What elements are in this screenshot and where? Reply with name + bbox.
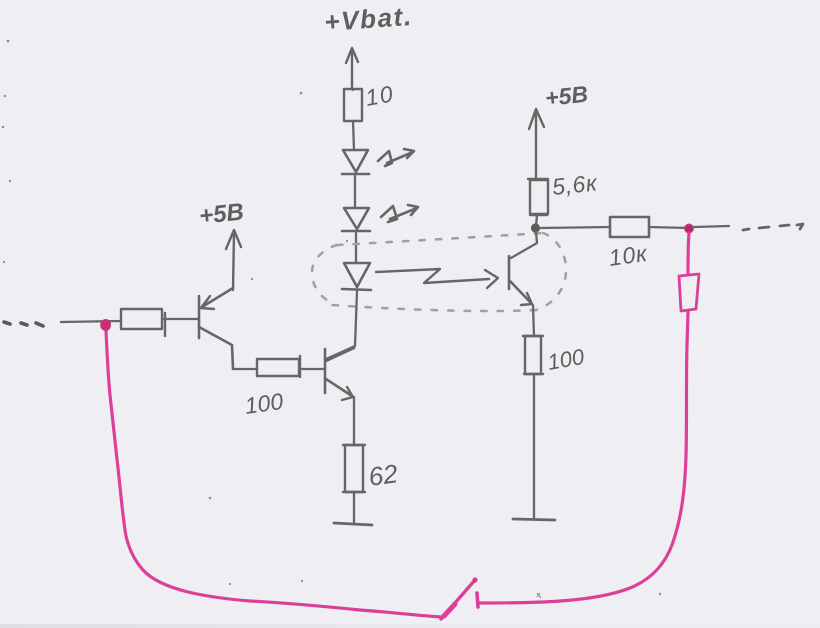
wire (node A to R3) [540,227,610,228]
node A junction dot [531,223,540,232]
pink feedback wire [101,224,699,619]
transistor Q1 (PNP) [199,288,233,369]
pink tick [477,593,478,607]
wire (R4 to Q1 base) [162,318,198,320]
wire (R3 to node B) [649,227,689,228]
wire (LED chain to Q2 collector) [326,291,357,359]
paper speckles [2,40,662,598]
power arrow +5B left [226,230,241,290]
coupling arrow D3 to Q3 [376,269,498,288]
wire (node A to Q3 collector) [511,232,537,258]
label +5B (right) [544,81,589,111]
wire [352,88,353,90]
ground G1 [334,523,372,525]
wire (R8 to ground) [533,374,535,519]
resistor R8 100 (right) [523,336,543,374]
pink wire (R7 down and around bottom right) [480,312,688,603]
svg-text:10: 10 [363,80,396,111]
LED D2 [342,208,370,231]
wire (Q1 collector to R5) [233,368,257,370]
resistor R3 10k (horizontal) [610,217,649,237]
wire (Q2 emitter to R6) [353,397,355,444]
label 100 [243,388,285,419]
wire (Q3 emitter to R8) [533,305,534,336]
label 100 (right) [546,344,587,375]
resistor R5 100 (horizontal) [257,356,300,377]
LED D1 [342,150,369,174]
transistor Q2 (NPN) [325,348,354,400]
resistor R6 62 [343,445,365,492]
pink wire (bottom run from left) [106,331,443,617]
svg-text:+5B: +5B [544,81,589,111]
label +5B (left) [198,198,245,230]
svg-text:100: 100 [243,388,285,419]
wire [353,121,354,150]
wire (R5 to Q2 base) [300,368,325,370]
wire (R6 to ground) [353,492,355,523]
node B pink junction dot [685,224,694,233]
svg-text:+Vbat.: +Vbat. [323,1,413,37]
right continuation dots [743,224,803,230]
svg-text:62: 62 [367,458,400,492]
svg-text:10к: 10к [607,240,649,271]
pink wire (node B down to pink resistor) [688,233,689,274]
label 5,6k [551,169,599,200]
LED D3 (inside optocoupler) [342,263,371,290]
wire (left input) [61,321,121,322]
optocoupler dashed outline U1 [312,233,566,311]
wire (R2 to node A) [536,215,537,226]
power arrow +Vbat [346,48,358,88]
resistor R1 10 [344,89,362,121]
pink start blob [101,320,110,330]
wire [355,233,357,263]
resistor R2 5,6k [528,179,548,215]
left continuation dots [4,322,43,326]
svg-text:5,6к: 5,6к [551,169,599,200]
light arrow of D2 [381,205,418,222]
label 10 [363,80,396,111]
ground G2 [513,519,555,520]
pink resistor R7 [679,274,699,311]
label 10k [607,240,649,271]
svg-text:+5B: +5B [198,198,245,230]
label 62 [367,458,400,492]
resistor R4 (unlabeled, left) [121,309,165,336]
pink flick stroke [441,580,475,619]
power arrow +5B right [529,109,544,177]
wire (node B to right) [694,226,729,227]
label +Vbat. [323,1,413,37]
phototransistor Q3 (NPN) [509,256,532,305]
wire [354,176,356,208]
light arrow of D1 [378,149,414,166]
